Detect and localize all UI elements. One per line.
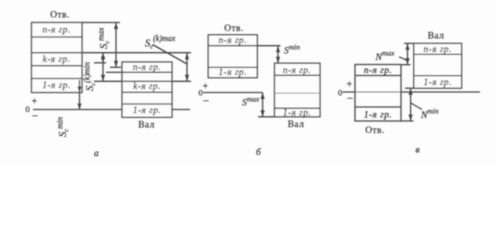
- svg-text:+: +: [347, 80, 353, 91]
- svg-text:+: +: [203, 82, 209, 93]
- svg-text:а: а: [94, 149, 99, 159]
- svg-text:–: –: [203, 96, 210, 107]
- svg-text:1-я гр.: 1-я гр.: [219, 68, 247, 78]
- svg-text:1-я гр.: 1-я гр.: [283, 108, 311, 118]
- svg-text:Отв.: Отв.: [365, 126, 384, 136]
- svg-text:n-я гр.: n-я гр.: [283, 66, 311, 76]
- svg-text:1-я гр.: 1-я гр.: [133, 106, 161, 116]
- svg-text:–: –: [347, 93, 354, 104]
- svg-text:n-я гр.: n-я гр.: [219, 36, 247, 46]
- svg-text:n-я гр.: n-я гр.: [424, 45, 452, 55]
- svg-text:k-я гр.: k-я гр.: [133, 82, 161, 92]
- svg-text:Sc(k)min: Sc(k)min: [83, 62, 98, 91]
- svg-text:1-я гр.: 1-я гр.: [42, 81, 70, 91]
- svg-text:Nmax: Nmax: [375, 49, 396, 64]
- svg-text:Smax: Smax: [242, 95, 260, 109]
- svg-text:+: +: [32, 97, 38, 108]
- svg-text:n-я гр.: n-я гр.: [364, 66, 392, 76]
- svg-text:Вал: Вал: [138, 121, 155, 131]
- svg-text:n-я гр.: n-я гр.: [42, 26, 70, 36]
- svg-text:k-я гр.: k-я гр.: [43, 55, 71, 65]
- svg-text:1-я гр.: 1-я гр.: [424, 78, 452, 88]
- svg-text:Отв.: Отв.: [50, 11, 69, 21]
- svg-text:0: 0: [338, 88, 342, 98]
- svg-text:Отв.: Отв.: [224, 24, 243, 34]
- svg-text:1-я гр.: 1-я гр.: [364, 111, 392, 121]
- svg-text:в: в: [416, 146, 421, 156]
- svg-text:–: –: [32, 111, 39, 122]
- svg-text:n-я гр.: n-я гр.: [133, 63, 161, 73]
- svg-text:Nmin: Nmin: [420, 107, 439, 122]
- svg-text:б: б: [256, 147, 262, 158]
- svg-text:Sc(k)max: Sc(k)max: [145, 34, 176, 51]
- svg-text:Scmin: Scmin: [56, 117, 71, 137]
- svg-text:Scmax: Scmax: [97, 27, 112, 49]
- svg-text:Вал: Вал: [288, 120, 305, 130]
- svg-text:0: 0: [26, 104, 30, 114]
- svg-text:Smin: Smin: [284, 43, 300, 57]
- svg-text:Вал: Вал: [428, 32, 445, 42]
